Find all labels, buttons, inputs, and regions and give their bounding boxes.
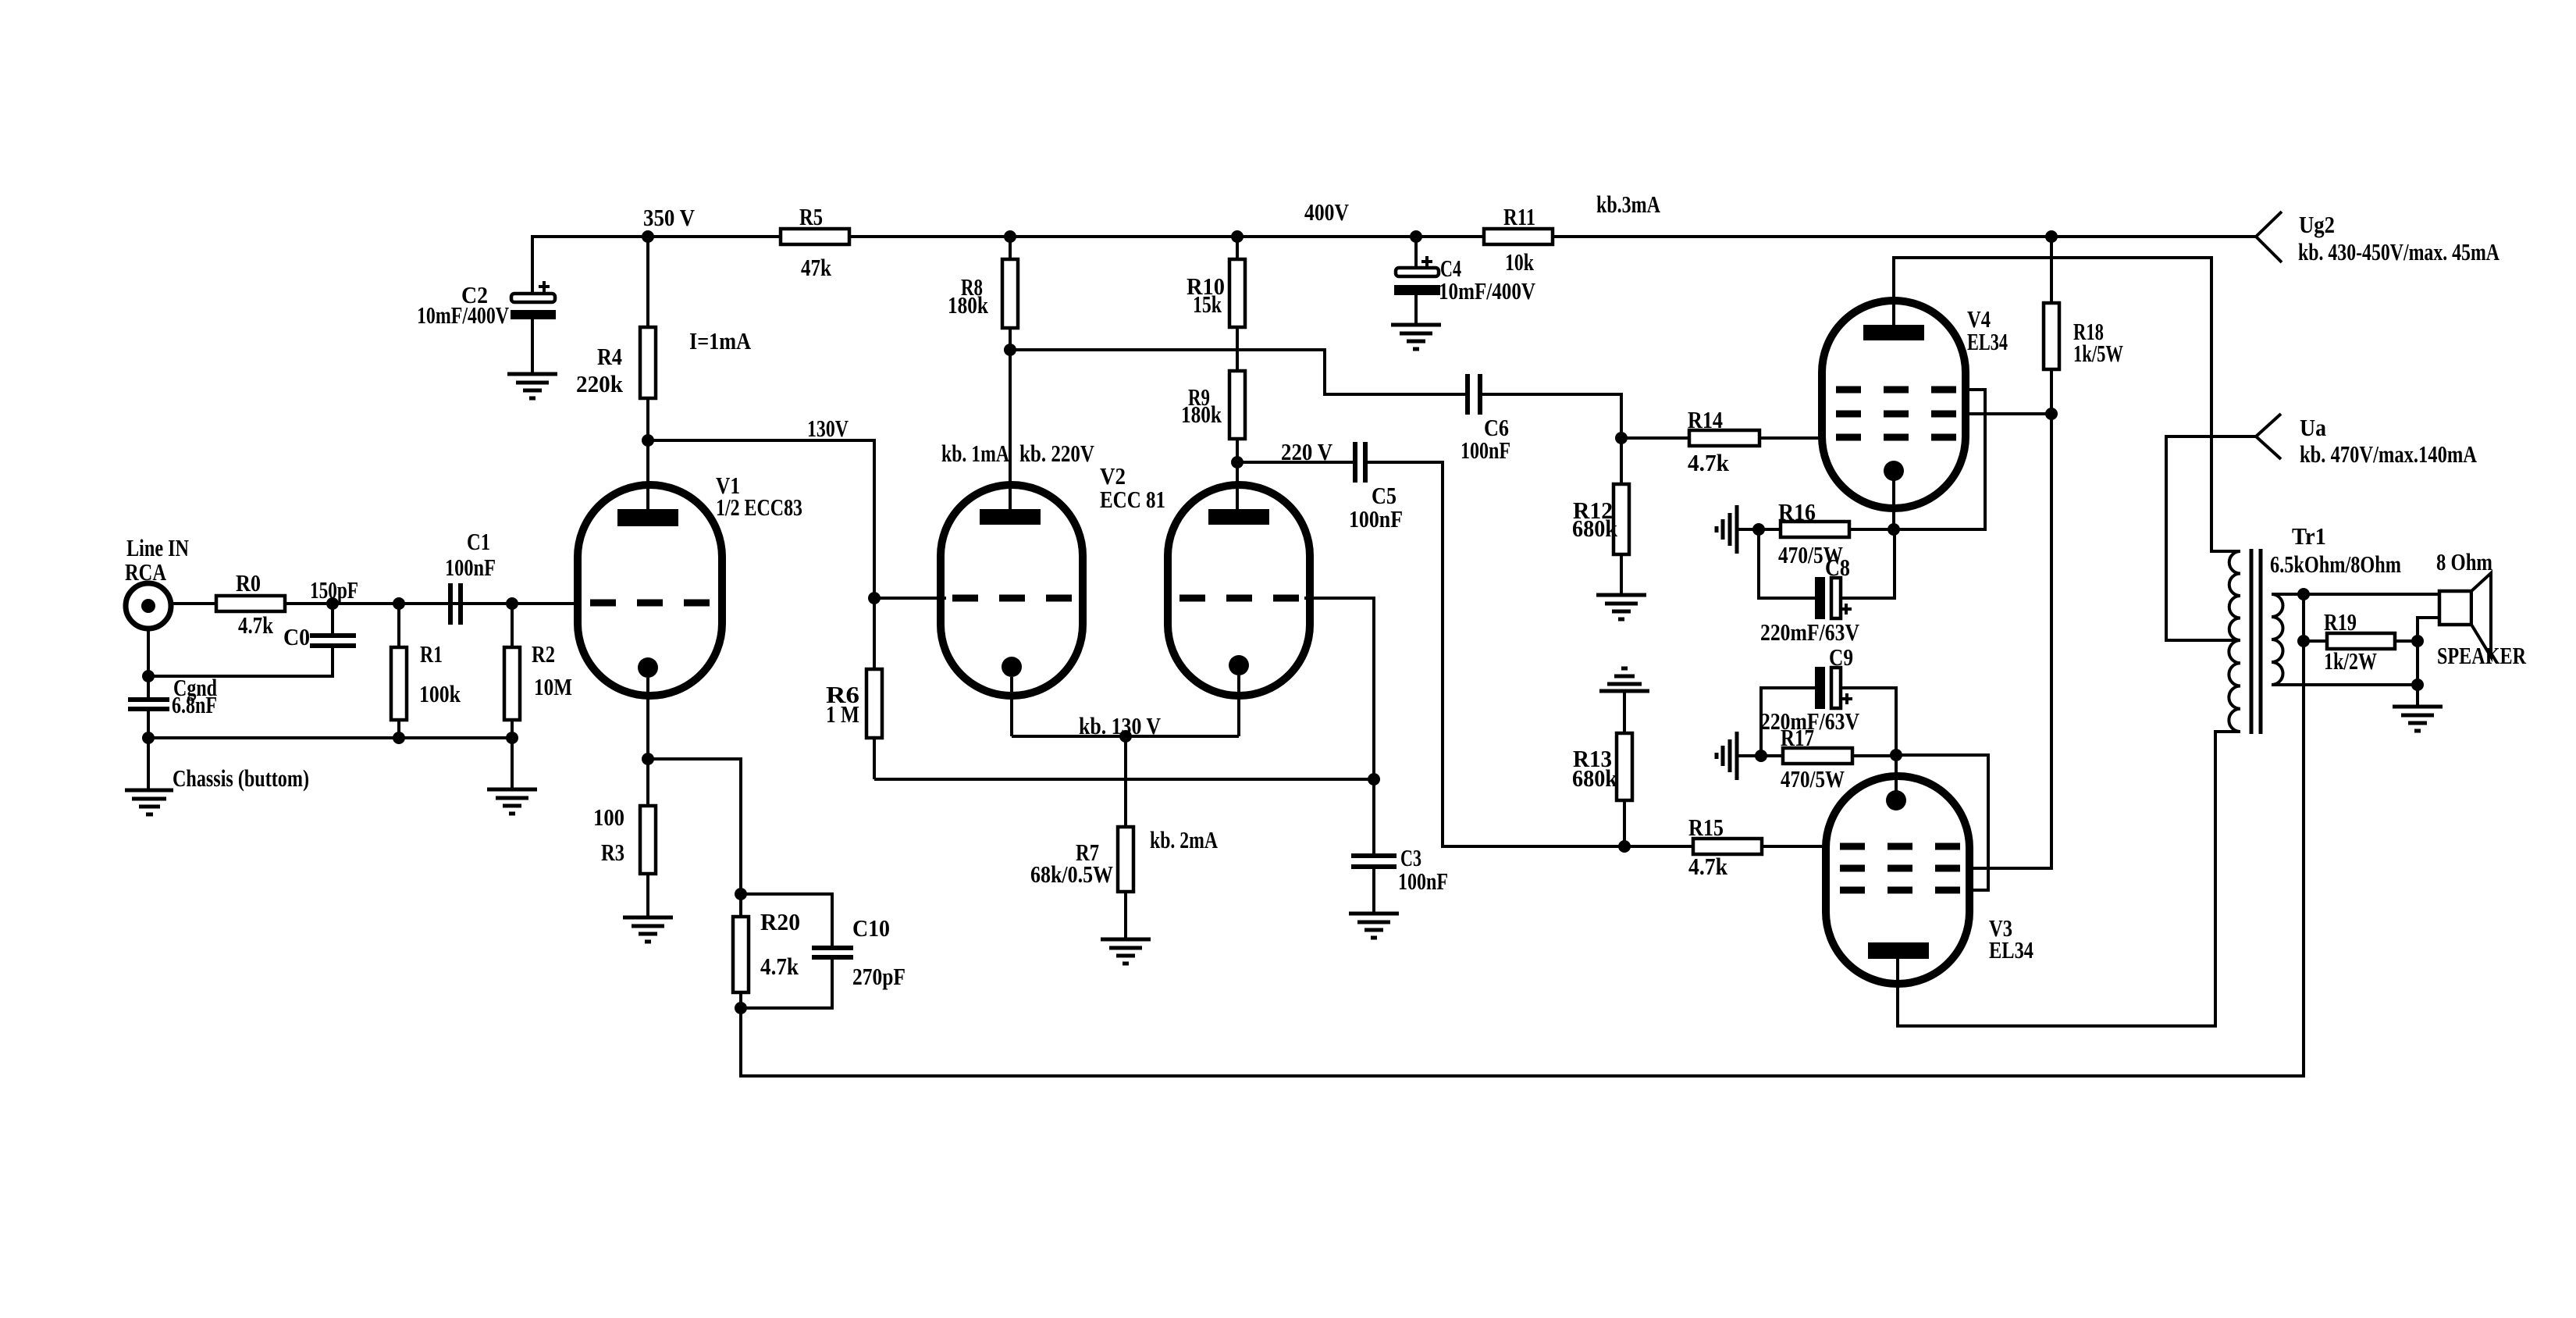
capacitor C5 100nF: [1349, 442, 1403, 533]
svg-text:100k: 100k: [419, 680, 461, 707]
svg-text:C9: C9: [1829, 643, 1853, 671]
svg-text:100nF: 100nF: [1398, 867, 1448, 895]
svg-text:Line IN: Line IN: [126, 534, 189, 561]
wire C0 return to RCA shield: [148, 646, 333, 676]
svg-text:Ug2: Ug2: [2299, 211, 2335, 238]
resistor R15 4.7k: [1624, 814, 1829, 880]
resistor R14 4.7k: [1621, 406, 1825, 476]
svg-text:350 V: 350 V: [643, 204, 696, 231]
label 400V: [1304, 198, 1350, 226]
svg-text:R15: R15: [1688, 814, 1724, 841]
resistor R1 100k: [391, 604, 461, 738]
wire V2a anode to C6: [1010, 350, 1468, 394]
wire Ua to primary center tap: [2166, 436, 2256, 640]
wire V3 suppressor to cathode: [1896, 755, 1988, 890]
wire V2b anode lead: [1236, 462, 1239, 509]
node R2 top: [506, 597, 518, 610]
ground chassis: [125, 764, 309, 814]
wire 130V to V2a grid: [648, 415, 874, 598]
node R1 bottom: [393, 732, 405, 744]
connector J1 Line IN RCA: [125, 534, 189, 629]
svg-text:220mF/63V: 220mF/63V: [1760, 707, 1860, 735]
svg-text:1 M: 1 M: [826, 700, 859, 728]
node secondary top: [2297, 588, 2310, 600]
resistor R18 1k/5W: [2044, 237, 2123, 414]
wire B+ rail left: [532, 237, 781, 294]
wire V4 suppressor to cathode: [1894, 390, 1985, 529]
capacitor C8 220mF/63V: [1759, 529, 1895, 646]
svg-text:6.8nF: 6.8nF: [172, 691, 217, 718]
node R20 top: [735, 888, 747, 900]
node R20 bottom: [735, 1002, 747, 1014]
svg-text:kb. 430-450V/max. 45mA: kb. 430-450V/max. 45mA: [2298, 238, 2500, 265]
capacitor C4 10mF/400V: [1394, 237, 1535, 305]
node V1 anode: [642, 434, 654, 447]
svg-text:150pF: 150pF: [310, 576, 358, 604]
transformer Tr1 core: [2251, 549, 2261, 734]
wire V2a anode lead: [1009, 350, 1012, 509]
capacitor C6 100nF: [1461, 374, 1510, 464]
resistor R17 470/5W: [1761, 724, 1896, 793]
svg-text:220k: 220k: [576, 370, 624, 397]
resistor R5 47k: [781, 203, 849, 281]
node cathode bus: [1119, 730, 1132, 743]
svg-text:R0: R0: [236, 569, 261, 597]
resistor R12 680k: [1572, 438, 1629, 595]
resistor R8 180k: [948, 237, 1018, 350]
svg-text:8 Ohm: 8 Ohm: [2436, 548, 2492, 575]
capacitor Cgnd 6.8nF: [128, 674, 217, 718]
node C4 top: [1410, 230, 1422, 243]
ground speaker: [2393, 707, 2443, 731]
wire Cgnd to chassis ground: [147, 709, 150, 790]
ground under C2: [507, 374, 557, 398]
wire C6 to R14 node: [1480, 394, 1621, 438]
capacitor C2 10mF/400V: [417, 281, 556, 329]
svg-text:Tr1: Tr1: [2292, 522, 2326, 550]
node V2a anode: [1004, 344, 1016, 356]
svg-text:R1: R1: [420, 640, 443, 668]
resistor R2 10M: [504, 604, 572, 738]
svg-text:EL34: EL34: [1989, 936, 2033, 964]
wire feedback from speaker: [741, 641, 2304, 1076]
resistor R3 100: [593, 759, 656, 917]
svg-text:EL34: EL34: [1967, 328, 2008, 355]
svg-text:400V: 400V: [1304, 198, 1350, 226]
terminal Ug2: [2256, 211, 2500, 265]
node R14 left: [1615, 432, 1628, 444]
wire V4 screen to R18: [1962, 412, 2051, 415]
node V4 cathode: [1888, 523, 1900, 536]
resistor R11 10k: [1484, 203, 1553, 276]
svg-text:180k: 180k: [1181, 401, 1222, 428]
wire to speaker ground: [2416, 685, 2419, 707]
wire RCA down: [147, 628, 150, 700]
node R19 left: [2297, 635, 2310, 647]
node R18 top: [2045, 230, 2058, 243]
node V2a grid: [868, 592, 881, 604]
wire R19 right to ground node: [2416, 641, 2419, 685]
svg-text:4.7k: 4.7k: [1688, 853, 1728, 880]
transformer Tr1 secondary winding: [2272, 594, 2283, 685]
ground left of R17: [1717, 732, 1761, 780]
node R13 bottom: [1618, 840, 1631, 853]
resistor R0 4.7k: [216, 569, 285, 639]
resistor R20 4.7k: [733, 894, 800, 1008]
node V2b anode 220V: [1231, 438, 1333, 468]
node R8 top: [1004, 230, 1016, 243]
svg-text:10mF/400V: 10mF/400V: [417, 301, 509, 329]
wire V2 cathode bus: [1012, 712, 1239, 739]
svg-text:R4: R4: [597, 343, 622, 370]
wire C2 to ground: [531, 319, 534, 374]
wire V3 cathode: [1895, 755, 1898, 792]
svg-text:220mF/63V: 220mF/63V: [1760, 618, 1860, 646]
svg-text:100nF: 100nF: [1349, 505, 1403, 533]
triode V1 1/2 ECC83: [578, 440, 802, 759]
ground above R13: [1599, 668, 1649, 691]
node R10 top: [1231, 230, 1244, 243]
svg-text:ECC 81: ECC 81: [1100, 486, 1165, 513]
svg-text:1k/2W: 1k/2W: [2324, 647, 2377, 675]
wire R0 to V1 grid: [285, 602, 581, 605]
svg-text:R19: R19: [2324, 608, 2357, 636]
wire ground bus: [148, 736, 512, 739]
wire 220V node to C5: [1237, 461, 1355, 464]
capacitor C0 150pF: [283, 604, 356, 650]
svg-text:R16: R16: [1778, 498, 1816, 525]
resistor R16 470/5W: [1759, 498, 1894, 568]
wire V4 cathode: [1892, 480, 1895, 529]
svg-text:kb.3mA: kb.3mA: [1596, 191, 1660, 218]
svg-text:47k: 47k: [801, 254, 832, 281]
resistor R19 1k/2W: [2304, 608, 2418, 675]
triode V2b ECC81: [1100, 462, 1310, 736]
svg-text:R20: R20: [760, 908, 800, 935]
node R2 bottom: [506, 732, 518, 744]
svg-text:C10: C10: [852, 914, 890, 942]
ground under R3: [623, 917, 673, 942]
wire rail R11 to Ug2: [1553, 235, 2256, 238]
svg-text:R2: R2: [532, 640, 555, 668]
ground left of R16: [1717, 505, 1759, 554]
wire V4 anode to transformer: [1894, 258, 2240, 551]
resistor R9 180k: [1181, 371, 1245, 462]
node V1 cathode: [642, 753, 654, 765]
node R1 top: [393, 597, 405, 610]
wire V2a grid stub: [874, 597, 946, 600]
wire cathode to R20: [648, 759, 741, 894]
node 350V: [642, 204, 696, 243]
wire C4 to ground: [1414, 295, 1418, 325]
svg-text:RCA: RCA: [125, 558, 166, 586]
svg-text:4.7k: 4.7k: [760, 953, 799, 980]
node RCA shield: [142, 670, 155, 682]
svg-text:4.7k: 4.7k: [1688, 449, 1730, 476]
wire R2 to ground: [511, 738, 514, 789]
wire R18 to V3 screen: [1966, 414, 2051, 868]
label I=1mA: [689, 327, 752, 354]
capacitor C10 270pF: [741, 894, 906, 1008]
resistor R4 220k: [576, 237, 656, 440]
resistor R13 680k: [1572, 691, 1632, 846]
node R17 left: [1755, 750, 1767, 762]
svg-text:130V: 130V: [807, 415, 849, 442]
label kb.3mA: [1596, 191, 1660, 218]
svg-text:100nF: 100nF: [445, 554, 496, 581]
svg-text:C0: C0: [283, 623, 310, 650]
resistor R6 1M: [826, 598, 882, 779]
pentode V4 EL34: [1822, 301, 2008, 508]
svg-text:I=1mA: I=1mA: [689, 327, 752, 354]
capacitor C1 100nF: [445, 528, 496, 625]
svg-text:Chassis (buttom): Chassis (buttom): [173, 764, 309, 792]
wire secondary top to R19: [2302, 594, 2305, 641]
svg-text:680k: 680k: [1572, 764, 1618, 792]
svg-text:C1: C1: [467, 528, 490, 555]
ground under R12: [1596, 595, 1646, 619]
svg-text:10k: 10k: [1505, 248, 1535, 276]
resistor R10 15k: [1187, 237, 1245, 327]
triode V2a ECC81: [941, 440, 1094, 736]
capacitor C9 220mF/63V: [1760, 643, 1896, 756]
wire RCA to R0: [172, 602, 216, 605]
svg-text:1k/5W: 1k/5W: [2073, 340, 2123, 367]
ground under R2: [487, 789, 537, 814]
node 150pF: [310, 576, 358, 610]
ground under C3: [1349, 914, 1399, 938]
wire R10 to R9: [1236, 327, 1239, 371]
svg-text:68k/0.5W: 68k/0.5W: [1030, 860, 1113, 888]
svg-text:100: 100: [593, 803, 624, 831]
svg-text:15k: 15k: [1193, 290, 1222, 318]
wire V2b grid to C3 node: [1304, 598, 1374, 779]
terminal Ua: [2256, 414, 2477, 468]
wire secondary bottom: [2272, 683, 2418, 686]
ground under R7: [1101, 939, 1151, 964]
svg-text:470/5W: 470/5W: [1781, 765, 1845, 793]
node R16 left: [1752, 523, 1765, 536]
svg-text:Ua: Ua: [2300, 414, 2326, 441]
wire V3 anode to transformer: [1898, 732, 2240, 1026]
wire secondary top to speaker: [2272, 593, 2439, 596]
svg-text:kb. 470V/max.140mA: kb. 470V/max.140mA: [2300, 440, 2477, 468]
speaker 8 Ohm: [2436, 548, 2526, 669]
node R18 bottom: [2045, 408, 2058, 420]
wire R6 bottom to C3 node: [874, 778, 1374, 781]
svg-text:R11: R11: [1503, 203, 1535, 230]
svg-text:R3: R3: [601, 839, 624, 866]
wire C5 to R15 node: [1365, 462, 1624, 846]
node R19 right: [2411, 635, 2424, 647]
svg-text:C8: C8: [1825, 554, 1850, 581]
node ground bus left: [142, 732, 155, 744]
svg-text:6.5kOhm/8Ohm: 6.5kOhm/8Ohm: [2270, 550, 2401, 578]
svg-text:4.7k: 4.7k: [238, 611, 274, 639]
resistor R7 68k/0.5W: [1030, 736, 1218, 939]
node V3 cathode: [1890, 749, 1902, 761]
svg-text:SPEAKER: SPEAKER: [2437, 642, 2526, 669]
svg-text:R14: R14: [1688, 406, 1723, 433]
wire R19 to speaker return: [2418, 618, 2439, 641]
node secondary bottom: [2411, 679, 2424, 691]
svg-text:1/2 ECC83: 1/2 ECC83: [716, 493, 802, 521]
svg-text:270pF: 270pF: [852, 963, 906, 990]
svg-text:180k: 180k: [948, 291, 989, 319]
wire rail R5 to R11: [849, 235, 1484, 238]
pentode V3 EL34: [1826, 776, 2033, 984]
svg-text:680k: 680k: [1572, 515, 1618, 542]
svg-text:kb. 2mA: kb. 2mA: [1150, 826, 1218, 853]
svg-text:100nF: 100nF: [1461, 436, 1510, 464]
svg-text:10M: 10M: [534, 673, 572, 700]
svg-text:kb. 220V: kb. 220V: [1019, 440, 1094, 467]
svg-text:kb. 1mA: kb. 1mA: [941, 440, 1009, 467]
ground under C4: [1391, 325, 1441, 349]
svg-text:R5: R5: [799, 203, 823, 230]
node C3 top: [1368, 773, 1380, 785]
capacitor C3 100nF: [1351, 779, 1448, 914]
transformer Tr1 primary winding: [2229, 522, 2401, 732]
svg-text:10mF/400V: 10mF/400V: [1439, 277, 1535, 305]
